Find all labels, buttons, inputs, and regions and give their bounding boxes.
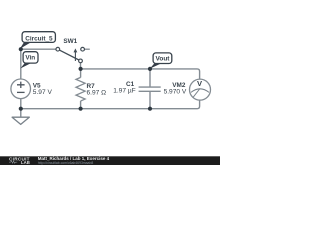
svg-text:SW1: SW1 bbox=[63, 38, 77, 45]
wire bottom rail bbox=[21, 100, 200, 109]
node dot switch junction bbox=[79, 67, 83, 71]
wire top-left rail bbox=[21, 48, 56, 50]
node dot R7 bottom bbox=[79, 107, 83, 111]
label Vout callout bbox=[150, 63, 161, 68]
wire top rail right of switch bbox=[81, 69, 200, 79]
node dot C1 bottom bbox=[148, 107, 152, 111]
wire V5 to bottom rail bbox=[20, 99, 22, 109]
wire switch throw stub bbox=[85, 48, 90, 50]
node dot ground tap bbox=[19, 107, 23, 111]
wire C1 bottom bbox=[149, 91, 151, 108]
voltmeter VM2 bbox=[190, 79, 211, 100]
wire C1 top bbox=[149, 69, 151, 87]
svg-text:Circuit_5: Circuit_5 bbox=[25, 35, 53, 42]
svg-text:Vout: Vout bbox=[156, 56, 171, 63]
svg-text:http://circuitlab.com/c6ab4693: http://circuitlab.com/c6ab4693maab8 bbox=[38, 161, 94, 165]
svg-text:6.97 Ω: 6.97 Ω bbox=[87, 89, 107, 96]
voltage source V5 bbox=[11, 79, 31, 99]
switch SW1 bbox=[56, 47, 84, 62]
svg-text:5.970 V: 5.970 V bbox=[164, 89, 187, 96]
wire junction to R7 bbox=[80, 69, 82, 78]
wire left vertical Vin node to V5 bbox=[20, 49, 22, 79]
svg-text:5.97 V: 5.97 V bbox=[33, 89, 53, 96]
svg-text:1.97 µF: 1.97 µF bbox=[113, 88, 136, 95]
wire switch pole to junction bbox=[80, 63, 82, 69]
wire R7 to bottom rail bbox=[80, 101, 82, 109]
svg-text:LAB: LAB bbox=[21, 160, 30, 165]
node dot Vout bbox=[148, 67, 152, 71]
ground bbox=[20, 109, 22, 118]
capacitor C1 bbox=[139, 87, 161, 91]
label Circuit_5 callout bbox=[20, 42, 31, 49]
svg-text:Vin: Vin bbox=[25, 55, 35, 62]
node dot Vin corner bbox=[19, 47, 23, 51]
resistor R7 bbox=[76, 77, 85, 101]
svg-text:Matt_Richards / Lab 1, Exercis: Matt_Richards / Lab 1, Exercise 4 bbox=[38, 156, 110, 161]
footer bar bbox=[0, 156, 220, 165]
label Vin callout bbox=[20, 63, 31, 69]
